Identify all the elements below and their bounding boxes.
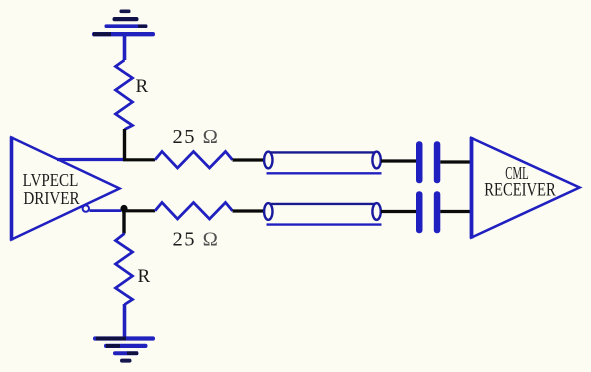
inversion bubble on driver inverting output: [83, 205, 89, 211]
wire: R4 to transmission line T2: [233, 209, 265, 212]
wire: T2 to capacitor C2: [381, 210, 416, 213]
power rail VTT (top supply symbol): [92, 10, 155, 37]
wire: rail to R1: [123, 36, 127, 60]
svg-text:R: R: [138, 266, 151, 287]
resistor R3 25 ohm (top series): [155, 152, 233, 169]
transmission line T1 (top): [264, 152, 381, 174]
svg-text:R: R: [136, 76, 149, 97]
op-amp U1 LVPECL driver: [12, 137, 120, 241]
transmission line T2 (bottom): [264, 203, 381, 225]
wire: C2 to receiver input: [440, 210, 470, 213]
capacitor C2 (bottom AC coupling): [416, 191, 440, 233]
svg-text:RECEIVER: RECEIVER: [484, 179, 556, 200]
wire: R3 to transmission line T1: [233, 158, 265, 161]
wire: C1 to receiver input: [440, 160, 470, 163]
wire: node A to 25 ohm resistor (black): [123, 158, 155, 161]
wire: node B to lower 25 ohm resistor (black): [122, 209, 155, 212]
wire: T1 to capacitor C1: [381, 159, 416, 162]
svg-text:25 Ω: 25 Ω: [173, 229, 220, 251]
ground: [93, 336, 155, 362]
op-amp U2 CML receiver: [472, 137, 580, 239]
capacitor C1 (top AC coupling): [416, 141, 440, 183]
resistor R2 (bottom termination): [116, 209, 133, 338]
node B junction dot: [120, 205, 127, 212]
wire: driver noninverting output (blue): [57, 158, 123, 161]
resistor R4 25 ohm (bottom series): [155, 203, 233, 220]
wire: driver inverting output (blue): [90, 209, 122, 212]
resistor R1 (top termination): [116, 60, 133, 160]
svg-text:25 Ω: 25 Ω: [173, 126, 220, 148]
svg-text:DRIVER: DRIVER: [23, 188, 80, 209]
